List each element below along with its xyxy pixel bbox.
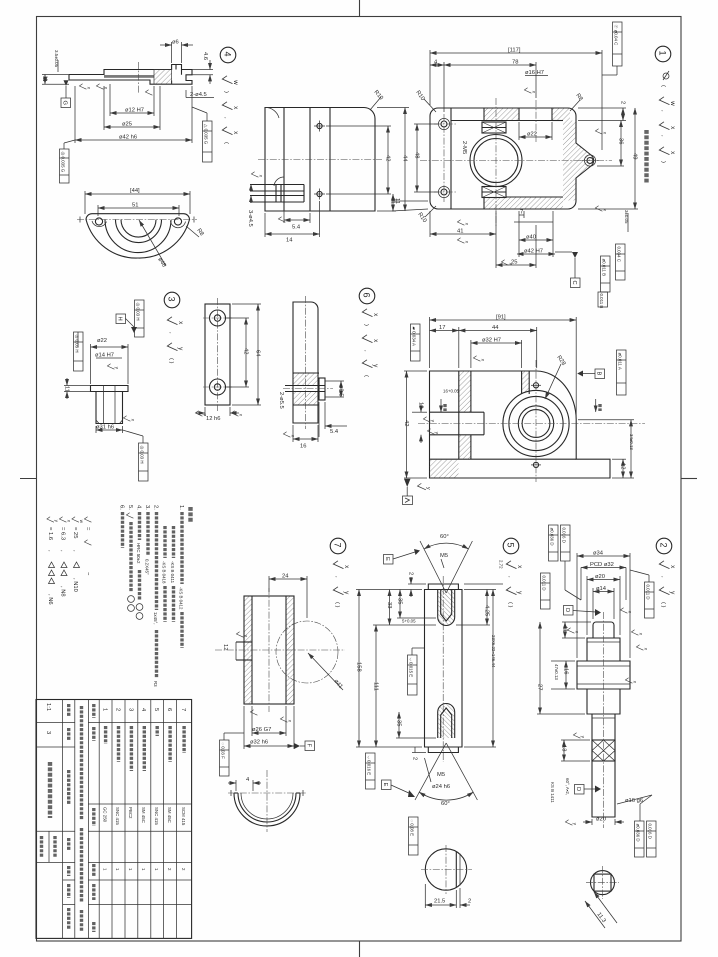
svg-text:3: 3 bbox=[167, 297, 177, 302]
datum F bbox=[294, 743, 300, 749]
outline with ears bbox=[430, 108, 594, 209]
svg-text:5.: 5. bbox=[127, 505, 133, 510]
hatch block bbox=[154, 70, 172, 85]
svg-text:2: 2 bbox=[620, 101, 626, 104]
svg-text:ø0.011 B: ø0.011 B bbox=[602, 259, 607, 277]
hatches bbox=[484, 109, 519, 121]
svg-text:SM 45C: SM 45C bbox=[167, 807, 172, 823]
svg-text:PBC2: PBC2 bbox=[128, 807, 133, 819]
svg-text:ø32 H7: ø32 H7 bbox=[482, 338, 501, 344]
svg-text:0.011 B: 0.011 B bbox=[599, 294, 604, 309]
body bbox=[425, 584, 463, 753]
dim 44 bbox=[377, 107, 409, 109]
horizontal grid left area bbox=[36, 722, 75, 724]
svg-text:13: 13 bbox=[561, 745, 567, 751]
dim phi32 h6 bbox=[243, 706, 245, 749]
title block table bbox=[36, 700, 192, 939]
notes block (rotated korean) bbox=[47, 505, 191, 687]
svg-text:4.6: 4.6 bbox=[202, 52, 208, 60]
legend rows bbox=[84, 517, 91, 576]
svg-text:KS B 1411: KS B 1411 bbox=[550, 782, 555, 803]
header column marks bbox=[92, 704, 95, 718]
svg-text:[117]: [117] bbox=[508, 48, 521, 54]
H datum bbox=[116, 314, 126, 324]
svg-text:2: 2 bbox=[468, 899, 471, 905]
svg-text:(: ( bbox=[363, 375, 369, 377]
knurl bbox=[592, 740, 615, 761]
svg-text:ø20: ø20 bbox=[596, 817, 606, 823]
svg-text:12: 12 bbox=[620, 463, 626, 469]
dim phi42 h6 bbox=[74, 86, 76, 143]
top notch for phi16 bbox=[519, 108, 552, 121]
fcf bottom pair bbox=[635, 821, 645, 857]
R28 leader bbox=[545, 364, 561, 399]
top tapped hole section bbox=[438, 590, 455, 626]
fcf bottom left bbox=[366, 753, 376, 789]
svg-text:2: 2 bbox=[408, 572, 414, 575]
datum A bottom left bbox=[404, 479, 411, 487]
slot bbox=[430, 411, 485, 413]
svg-text:6: 6 bbox=[362, 293, 372, 298]
svg-text:36: 36 bbox=[618, 138, 624, 144]
svg-text:( ): ( ) bbox=[660, 602, 666, 608]
dim 11 left bbox=[42, 74, 69, 76]
svg-text:HRC 50±2: HRC 50±2 bbox=[136, 543, 141, 564]
part 7 sleeve section bbox=[215, 574, 345, 777]
left wall hatch bbox=[459, 371, 471, 412]
svg-text:11: 11 bbox=[64, 386, 70, 392]
dim 11 left bbox=[64, 385, 91, 387]
svg-text:[44]: [44] bbox=[130, 188, 140, 194]
dim 14 bbox=[264, 213, 266, 237]
svg-text:-KS B 0418: -KS B 0418 bbox=[162, 561, 167, 584]
fcf bottom left bbox=[220, 740, 230, 776]
svg-text:= 6.3: = 6.3 bbox=[60, 527, 66, 540]
svg-text:21.5: 21.5 bbox=[434, 899, 445, 905]
right dims bbox=[464, 583, 503, 585]
svg-text:12: 12 bbox=[222, 644, 228, 650]
fcf top pair bbox=[549, 525, 559, 561]
svg-text:): ) bbox=[363, 324, 369, 326]
dim [44] bbox=[84, 191, 86, 214]
big bore circles bbox=[470, 135, 522, 187]
svg-text:5: 5 bbox=[153, 708, 159, 711]
finish col part6 bbox=[362, 309, 379, 317]
fcf left bbox=[411, 324, 421, 361]
part names dashes bbox=[104, 726, 107, 744]
svg-text:ø26 G7: ø26 G7 bbox=[252, 727, 271, 733]
dim phi31 h6 bbox=[95, 426, 97, 433]
dim 24 top bbox=[268, 576, 270, 592]
hatched boss bbox=[293, 373, 319, 386]
balloon 4 bbox=[220, 47, 236, 63]
fcf left single bbox=[541, 573, 551, 609]
bottom checks bbox=[250, 710, 257, 715]
centerlines bbox=[420, 160, 612, 162]
leader phi41 bbox=[308, 653, 343, 690]
note line 1c bbox=[163, 526, 166, 558]
top dims bbox=[429, 50, 431, 105]
dim 11 right bbox=[377, 210, 396, 212]
svg-text:D: D bbox=[575, 787, 581, 791]
svg-text:B: B bbox=[596, 372, 602, 376]
svg-text:49: 49 bbox=[632, 153, 638, 159]
svg-text:, N10: , N10 bbox=[72, 578, 78, 592]
surface marks on flange bbox=[79, 84, 91, 90]
svg-text:PCD ø32: PCD ø32 bbox=[590, 562, 614, 568]
bottom-left dims bbox=[396, 737, 436, 739]
dim 12 h6 bottom bbox=[204, 407, 206, 416]
svg-text:17: 17 bbox=[439, 325, 445, 331]
dim phi24 h6 bbox=[425, 758, 432, 782]
svg-text:E: E bbox=[384, 557, 390, 561]
svg-text:7: 7 bbox=[333, 543, 343, 548]
finish note col for part4 bbox=[222, 76, 239, 85]
svg-text:7: 7 bbox=[180, 708, 186, 711]
svg-text:☉ ø0.04 C: ☉ ø0.04 C bbox=[614, 25, 619, 46]
part 5 end view bbox=[421, 845, 472, 908]
phantom circle bbox=[276, 621, 338, 683]
balloon 1 bbox=[655, 46, 671, 62]
svg-text:12: 12 bbox=[418, 402, 424, 408]
D datum top bbox=[564, 606, 574, 616]
svg-text:F: F bbox=[306, 744, 312, 748]
svg-text:⌵ 0.015 E: ⌵ 0.015 E bbox=[409, 658, 414, 678]
svg-text:): ) bbox=[660, 161, 666, 163]
body bbox=[91, 386, 129, 424]
svg-text:SNC 415: SNC 415 bbox=[154, 807, 159, 825]
svg-text:, N8: , N8 bbox=[60, 586, 66, 597]
svg-text:6.: 6. bbox=[119, 505, 125, 510]
vertical grid bbox=[62, 700, 64, 939]
fcf right bbox=[203, 121, 213, 162]
svg-text:⌵ 0.016 E: ⌵ 0.016 E bbox=[367, 756, 372, 776]
bottom dims bbox=[429, 211, 431, 237]
svg-text:51: 51 bbox=[132, 203, 138, 209]
svg-text:◎ 0.03 H: ◎ 0.03 H bbox=[140, 446, 145, 464]
svg-text:◌ 0.08 E: ◌ 0.08 E bbox=[410, 820, 415, 837]
dim phi26 G7 bbox=[251, 706, 253, 736]
right dims 2 36 49 bbox=[578, 107, 626, 109]
svg-text:◎ 0.03 H: ◎ 0.03 H bbox=[136, 303, 141, 321]
dim 2-phi4.5 leader bbox=[185, 90, 187, 98]
finish col part3 bbox=[167, 317, 184, 325]
svg-text:12 h6: 12 h6 bbox=[206, 416, 221, 422]
dim 42 right bbox=[326, 125, 391, 127]
svg-text:16+0.05: 16+0.05 bbox=[443, 389, 460, 394]
svg-text:23X6.22=146.44: 23X6.22=146.44 bbox=[491, 635, 496, 668]
svg-text:64: 64 bbox=[255, 350, 261, 357]
svg-text:16: 16 bbox=[300, 444, 306, 450]
svg-text:2-ø4.5: 2-ø4.5 bbox=[190, 92, 207, 98]
balloon 5 bbox=[503, 538, 519, 554]
part 3 plate with two holes bbox=[195, 298, 261, 422]
svg-text:4: 4 bbox=[223, 52, 233, 57]
fcf lower bbox=[409, 817, 419, 855]
svg-text:[91]: [91] bbox=[496, 315, 506, 321]
svg-text:11: 11 bbox=[394, 198, 400, 204]
right dims bbox=[578, 419, 634, 421]
svg-text:44: 44 bbox=[402, 155, 408, 162]
svg-text:ø9.5: ø9.5 bbox=[338, 385, 344, 397]
dim 4.6 top right bbox=[192, 69, 213, 71]
svg-text:M5: M5 bbox=[440, 553, 448, 559]
fcf right bbox=[617, 350, 627, 395]
section arrows ga-ga bbox=[440, 399, 442, 412]
60 deg cone bottom bbox=[415, 743, 446, 800]
svg-text:ø0.036 D: ø0.036 D bbox=[550, 528, 555, 546]
svg-text:16: 16 bbox=[563, 668, 569, 674]
svg-text:(: ( bbox=[223, 142, 229, 144]
svg-text:41: 41 bbox=[457, 229, 463, 235]
top dims bbox=[429, 317, 431, 368]
phi22 dim bbox=[518, 122, 520, 140]
svg-text:M5: M5 bbox=[437, 772, 445, 778]
svg-text:2: 2 bbox=[412, 757, 418, 760]
svg-text:◎ 0.035 G: ◎ 0.035 G bbox=[61, 152, 66, 173]
svg-text:2-M5: 2-M5 bbox=[461, 141, 467, 154]
R10 leader bbox=[370, 97, 381, 110]
bore lines bbox=[104, 76, 154, 78]
fcf top right bbox=[135, 300, 145, 337]
svg-text:ø14: ø14 bbox=[596, 586, 607, 592]
svg-text:2: 2 bbox=[659, 543, 669, 548]
svg-text:27: 27 bbox=[537, 684, 543, 690]
part 3 bushing section view bbox=[64, 300, 149, 481]
svg-text:4.: 4. bbox=[136, 505, 142, 510]
svg-text:D: D bbox=[564, 608, 570, 612]
svg-text:◌ 0.03 F: ◌ 0.03 F bbox=[221, 743, 226, 760]
svg-text:14: 14 bbox=[286, 238, 293, 244]
svg-text:( ): ( ) bbox=[334, 602, 340, 608]
svg-text:24: 24 bbox=[282, 574, 289, 580]
svg-text:ø22: ø22 bbox=[97, 338, 107, 344]
part 4 bottom view (arc bracket) bbox=[77, 188, 205, 268]
svg-text:GC 250: GC 250 bbox=[102, 807, 107, 823]
svg-text:0.011 D: 0.011 D bbox=[542, 576, 547, 591]
svg-text:5.4: 5.4 bbox=[330, 429, 339, 435]
dim phi25 bbox=[103, 86, 105, 130]
top dims stack bbox=[576, 553, 578, 658]
svg-text:48: 48 bbox=[414, 152, 420, 158]
svg-text:42: 42 bbox=[385, 155, 391, 161]
svg-text:SCM 415: SCM 415 bbox=[181, 807, 186, 826]
centerline bbox=[138, 62, 140, 93]
svg-text:60°: 60° bbox=[440, 534, 449, 540]
svg-text:0.011 D: 0.011 D bbox=[646, 585, 651, 600]
E datum bottom bbox=[382, 780, 392, 790]
left dims bbox=[356, 589, 422, 591]
svg-text:ø14 H7: ø14 H7 bbox=[95, 353, 114, 359]
svg-text:1:1: 1:1 bbox=[45, 703, 51, 711]
centerline bbox=[77, 219, 197, 221]
svg-text:ø42 H7: ø42 H7 bbox=[524, 249, 543, 255]
fcf top right bbox=[613, 22, 623, 66]
svg-text:158: 158 bbox=[356, 662, 362, 672]
svg-text:SM 45C: SM 45C bbox=[141, 807, 146, 823]
svg-text:1x45°,: 1x45°, bbox=[153, 612, 158, 625]
fcf small top right bbox=[598, 292, 608, 307]
svg-text:ø32 h6: ø32 h6 bbox=[250, 740, 268, 746]
fcf left bbox=[60, 149, 70, 183]
svg-text:ø16 H7: ø16 H7 bbox=[525, 70, 544, 76]
svg-text:42: 42 bbox=[243, 348, 249, 354]
part 7 half bearing shell bbox=[228, 770, 306, 832]
E datum top bbox=[384, 555, 394, 565]
svg-text:2.72: 2.72 bbox=[499, 560, 504, 569]
svg-text:ø22: ø22 bbox=[527, 132, 537, 138]
dim 64 bbox=[232, 303, 261, 305]
svg-text:3.: 3. bbox=[144, 505, 150, 510]
60 deg cone top bbox=[420, 541, 446, 593]
dim 51 bbox=[97, 205, 99, 216]
inner wall hatch bbox=[522, 371, 530, 393]
svg-text:-KS B 0411: -KS B 0411 bbox=[170, 561, 175, 584]
svg-text:78: 78 bbox=[512, 60, 518, 66]
svg-text:6: 6 bbox=[166, 708, 172, 711]
svg-text:34±0.13: 34±0.13 bbox=[629, 434, 634, 450]
long text column bbox=[80, 706, 83, 820]
fcf bottom bbox=[139, 443, 149, 481]
svg-text:111: 111 bbox=[373, 682, 379, 691]
note heading bbox=[188, 507, 192, 523]
bearing rings top/bottom bbox=[482, 122, 506, 133]
svg-text:▰ 0.034 A: ▰ 0.034 A bbox=[412, 327, 417, 347]
svg-text:44: 44 bbox=[492, 325, 499, 331]
dim 11 bottom-left bbox=[392, 200, 428, 202]
fcf bottom right pair bbox=[601, 256, 611, 292]
part 5 shaft bbox=[356, 534, 504, 855]
part 6 pillow block housing section bbox=[403, 292, 646, 505]
svg-text:ø0.036 D: ø0.036 D bbox=[636, 824, 641, 842]
dim 5.4 bbox=[283, 204, 285, 223]
part 2 pinion shaft bbox=[537, 525, 657, 857]
ear holes bbox=[441, 121, 447, 127]
svg-text:11: 11 bbox=[42, 76, 48, 82]
svg-text:0.016 D: 0.016 D bbox=[648, 824, 653, 839]
svg-text:2: 2 bbox=[114, 708, 120, 711]
svg-text:R3: R3 bbox=[153, 681, 158, 687]
balloon 6 bbox=[359, 288, 375, 304]
flange body outline bbox=[69, 65, 192, 85]
svg-text:ø20: ø20 bbox=[595, 574, 605, 580]
screw holes bbox=[317, 123, 322, 128]
svg-text:( ): ( ) bbox=[168, 358, 174, 364]
dims bbox=[424, 884, 426, 908]
svg-text:ø12 H7: ø12 H7 bbox=[125, 108, 144, 114]
fcf left bbox=[74, 332, 84, 371]
leader R8 bbox=[186, 226, 199, 237]
svg-text:2.: 2. bbox=[153, 505, 159, 510]
svg-text:60°: 60° bbox=[441, 801, 450, 807]
leader phi46 bbox=[139, 220, 166, 266]
svg-text:5+0.05: 5+0.05 bbox=[402, 619, 416, 624]
bottom dims bbox=[617, 795, 652, 804]
bolt holes bbox=[95, 218, 102, 225]
svg-text:G: G bbox=[62, 101, 68, 106]
section title korean bbox=[644, 130, 648, 183]
svg-text:35: 35 bbox=[397, 598, 403, 604]
svg-text:1.: 1. bbox=[178, 505, 184, 510]
svg-text:1: 1 bbox=[658, 51, 668, 56]
svg-text:H: H bbox=[117, 317, 123, 321]
note line 1b bbox=[172, 526, 175, 558]
part 4 bearing cover section view bbox=[42, 40, 239, 184]
svg-text:ø40: ø40 bbox=[526, 235, 536, 241]
svg-text:◎ 0.03 H: ◎ 0.03 H bbox=[75, 335, 80, 353]
balloon 7 bbox=[330, 538, 346, 554]
horizontal grid parts area bbox=[88, 722, 191, 724]
svg-text:0.2X45°: 0.2X45° bbox=[145, 559, 150, 575]
part 1 body side view bbox=[247, 89, 409, 243]
svg-text:2-ø5.5: 2-ø5.5 bbox=[278, 392, 284, 409]
svg-text:0.034 C: 0.034 C bbox=[617, 247, 622, 262]
svg-text:ø42 h6: ø42 h6 bbox=[119, 135, 137, 141]
body sections bbox=[577, 622, 630, 817]
svg-text:ø31 h6: ø31 h6 bbox=[96, 425, 114, 431]
svg-text:SNC 415: SNC 415 bbox=[115, 807, 120, 825]
balloon 2 bbox=[656, 538, 672, 554]
base inner hatch bbox=[430, 460, 459, 478]
datum G triangle and box bbox=[64, 80, 69, 86]
svg-text:3: 3 bbox=[45, 731, 51, 734]
svg-text:42: 42 bbox=[403, 420, 409, 426]
circles bbox=[503, 390, 569, 456]
svg-text:33: 33 bbox=[386, 602, 392, 608]
part 3 side plate view bbox=[278, 296, 347, 450]
left dims bbox=[562, 621, 591, 623]
svg-text:, N6: , N6 bbox=[47, 594, 53, 605]
svg-text:(: ( bbox=[660, 85, 666, 87]
svg-text:5: 5 bbox=[506, 543, 516, 548]
D datum bottom bbox=[575, 785, 585, 795]
outline bbox=[430, 371, 611, 478]
centerline bbox=[258, 159, 382, 161]
finish col part5 bbox=[506, 561, 523, 569]
svg-text:ø34: ø34 bbox=[593, 551, 604, 557]
svg-text:ø6: ø6 bbox=[172, 40, 179, 46]
svg-text:E: E bbox=[382, 783, 388, 787]
part 1 body front (section) view bbox=[392, 22, 676, 292]
part 2 end view square bbox=[585, 866, 619, 928]
left dims 48 bbox=[414, 123, 438, 125]
svg-text:= 1.6: = 1.6 bbox=[47, 527, 53, 540]
fcf right bbox=[645, 582, 655, 618]
right checks bbox=[620, 608, 632, 614]
dim 42 bbox=[226, 317, 249, 319]
svg-text:3-ø4.5: 3-ø4.5 bbox=[247, 210, 253, 227]
svg-text:1: 1 bbox=[102, 708, 108, 711]
fcf mid bbox=[408, 655, 418, 695]
svg-text:ø0.011 A: ø0.011 A bbox=[618, 353, 623, 370]
dim phi6 top bbox=[171, 42, 173, 63]
centerlines bbox=[418, 423, 645, 425]
finish col for part1 bbox=[663, 73, 669, 79]
svg-text:4.25: 4.25 bbox=[484, 605, 490, 616]
svg-text:ø24 h6: ø24 h6 bbox=[432, 784, 450, 790]
left slot bbox=[236, 641, 252, 643]
finish col part2 bbox=[659, 561, 676, 569]
R labels bbox=[424, 99, 436, 112]
svg-text:ø25: ø25 bbox=[122, 122, 132, 128]
svg-text:60°, A▪2,: 60°, A▪2, bbox=[565, 778, 570, 795]
svg-text:ø16 g6: ø16 g6 bbox=[625, 798, 643, 804]
left boss bbox=[274, 177, 284, 186]
svg-text:0.016 D: 0.016 D bbox=[562, 528, 567, 543]
svg-text:): ) bbox=[223, 91, 229, 93]
dim phi12 H7 bbox=[109, 84, 111, 116]
B datum right bbox=[577, 371, 583, 377]
